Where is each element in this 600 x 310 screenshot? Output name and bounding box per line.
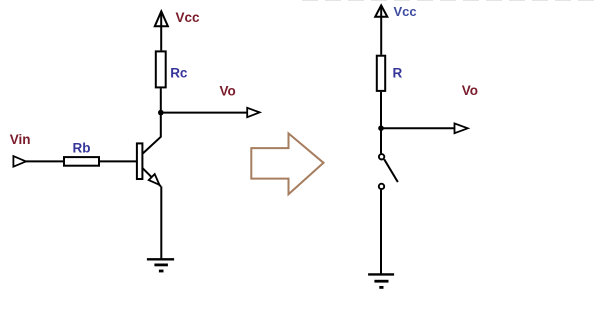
ground (right) xyxy=(368,274,394,287)
ground (left) xyxy=(147,259,174,271)
svg-text:Vcc: Vcc xyxy=(394,4,417,19)
block arrow symbol xyxy=(251,133,323,194)
svg-text:Vo: Vo xyxy=(220,84,236,99)
wire Rc bottom to collector node xyxy=(160,88,162,112)
svg-text:Rc: Rc xyxy=(170,66,188,81)
wire Vo output (left) xyxy=(161,112,247,114)
resistor Rb xyxy=(64,157,99,166)
switch blade xyxy=(384,159,398,182)
wire emitter to ground xyxy=(160,186,162,259)
wire collector to transistor xyxy=(143,113,161,154)
wire switch to ground xyxy=(380,190,382,275)
svg-text:Vcc: Vcc xyxy=(176,10,201,25)
arrowhead Vo (left) xyxy=(247,108,259,117)
node output junction (right) xyxy=(378,125,384,131)
node collector junction xyxy=(158,110,164,116)
Vcc power arrow (right) xyxy=(375,5,387,54)
resistor R xyxy=(377,56,385,91)
svg-text:Rb: Rb xyxy=(73,141,91,156)
switch terminal top xyxy=(379,154,384,159)
arrowhead Vo (right) xyxy=(455,123,468,133)
switch terminal bottom xyxy=(379,184,384,189)
wire R bottom to node xyxy=(380,92,382,128)
wire base xyxy=(100,160,137,162)
Vcc power arrow (left) xyxy=(155,11,168,50)
transistor Q1 emitter arrowhead xyxy=(149,174,160,185)
transistor Q1 emitter line xyxy=(142,168,161,187)
resistor Rc xyxy=(156,51,166,87)
wire node to switch xyxy=(380,128,382,153)
svg-text:Vo: Vo xyxy=(462,83,478,98)
svg-text:R: R xyxy=(393,66,403,81)
arrowhead Vin input xyxy=(13,156,26,167)
svg-text:Vin: Vin xyxy=(10,132,31,147)
transistor Q1 base bar xyxy=(137,143,143,179)
wire Vin to Rb xyxy=(26,160,63,162)
wire Vo output (right) xyxy=(381,127,455,129)
